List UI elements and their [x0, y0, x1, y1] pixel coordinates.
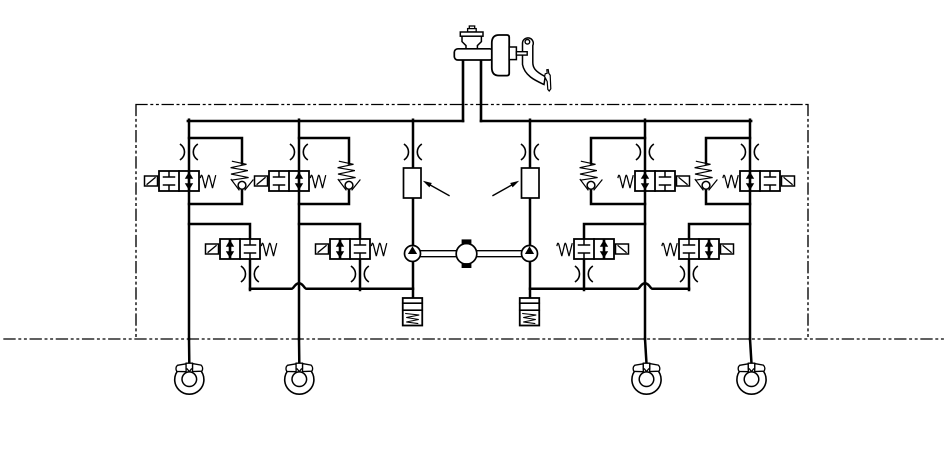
coupling on dump line D4 — [681, 267, 698, 282]
dump solenoid valve D2 — [316, 239, 387, 259]
master cylinder body — [454, 49, 493, 60]
wheel brake RL — [632, 363, 661, 394]
pipe: dump branch L1 — [189, 224, 250, 239]
pipe: dump branch R3 — [689, 224, 750, 239]
damping orifice / restrictor left — [404, 168, 422, 198]
pipe: dump valve D1 outlet — [249, 259, 252, 290]
pipe: channel R3 down from bus to inlet valve — [749, 120, 752, 171]
pipe: dump valve D4 outlet — [688, 259, 691, 290]
pipe: channel L1 from inlet valve to enclosure bottom — [188, 191, 191, 339]
dump solenoid valve D3 — [557, 239, 629, 259]
pipe: right pump pressure line — [529, 120, 532, 246]
low-pressure accumulator A2 — [520, 298, 540, 326]
motor drive shaft — [421, 251, 522, 257]
pipe: check valve CV1 bypass loop — [189, 138, 242, 204]
pipe: channel L2 from inlet valve to enclosure bottom — [298, 191, 301, 339]
coupling on dump line D2 — [352, 267, 369, 282]
reservoir filler cap — [460, 26, 483, 36]
brake pedal lever — [523, 38, 546, 85]
pipe: left pump pressure line — [412, 120, 415, 246]
pipe: master cylinder primary outlet drop — [462, 59, 465, 121]
pipe: channel R2 from inlet valve to enclosure bottom — [644, 191, 647, 339]
chassis centerline (dash-dot, full width) — [4, 338, 946, 340]
inlet solenoid valve V4 (channel R3) — [723, 171, 795, 191]
check valve CV2 — [338, 161, 360, 190]
coupling on left pump line — [405, 145, 422, 160]
return pump P2 — [522, 246, 538, 262]
pipe: channel L2 down from bus to inlet valve — [298, 120, 301, 171]
pipe: left return bus with jump over channel L2 — [250, 283, 413, 289]
pipe: channel L2 brake hose to wheel — [298, 339, 301, 364]
inlet solenoid valve V2 (channel L2) — [255, 171, 326, 191]
pedal foot pad — [545, 70, 551, 91]
low-pressure accumulator A1 — [403, 298, 423, 326]
inlet solenoid valve V1 (channel L1) — [145, 171, 216, 191]
pipe: channel R2 brake hose to wheel — [645, 339, 647, 364]
adjustment arrow right — [493, 181, 519, 196]
booster pushrod — [516, 52, 527, 55]
HCU enclosure boundary (dash-dot) — [136, 105, 808, 340]
inlet solenoid valve V3 (channel R2) — [618, 171, 690, 191]
pipe: check valve CV2 bypass loop — [299, 138, 349, 204]
pipe: check valve CV3 bypass loop — [591, 138, 645, 204]
pipe: dump branch L2 — [299, 224, 360, 239]
wheel brake FR — [285, 363, 314, 394]
adjustment arrow left — [423, 181, 449, 196]
check valve CV3 — [580, 161, 602, 190]
pipe: right supply bus — [481, 120, 751, 123]
damping orifice / restrictor right — [522, 168, 540, 198]
pipe: channel R3 brake hose to wheel — [750, 339, 752, 364]
dump solenoid valve D4 — [662, 239, 734, 259]
fluid reservoir — [462, 36, 481, 49]
coupling on channel L2 — [291, 145, 308, 160]
pipe: channel R2 down from bus to inlet valve — [644, 120, 647, 171]
coupling on dump line D1 — [242, 267, 259, 282]
pushrod housing — [509, 47, 516, 60]
coupling on channel L1 — [181, 145, 198, 160]
pipe: master cylinder secondary outlet drop — [480, 59, 483, 121]
check valve CV1 — [231, 161, 253, 190]
pipe: channel R3 from inlet valve to enclosure bottom — [749, 191, 752, 339]
pipe: dump branch R2 — [584, 224, 645, 239]
pipe: right return bus with jump over channel R2 — [530, 283, 689, 289]
coupling on channel R3 — [742, 145, 759, 160]
pipe: dump valve D3 outlet — [583, 259, 586, 290]
pipe: left supply bus — [188, 120, 463, 123]
return pump P1 — [405, 246, 421, 262]
pipe: check valve CV4 bypass loop — [706, 138, 750, 204]
pipe: channel L1 down from bus to inlet valve — [188, 120, 191, 171]
wheel brake FL — [175, 363, 204, 394]
pipe: dump valve D2 outlet — [359, 259, 362, 290]
wheel brake RR — [737, 363, 766, 394]
coupling on channel R2 — [637, 145, 654, 160]
vacuum booster — [492, 35, 509, 76]
check valve CV4 — [695, 161, 717, 190]
coupling on dump line D3 — [576, 267, 593, 282]
dump solenoid valve D1 — [206, 239, 277, 259]
pipe: right pump suction / accumulator line — [529, 261, 532, 298]
electric motor M — [456, 239, 477, 268]
coupling on right pump line — [522, 145, 539, 160]
pipe: left pump suction / accumulator line — [412, 261, 415, 298]
pipe: channel L1 brake hose to wheel FL — [188, 339, 191, 364]
